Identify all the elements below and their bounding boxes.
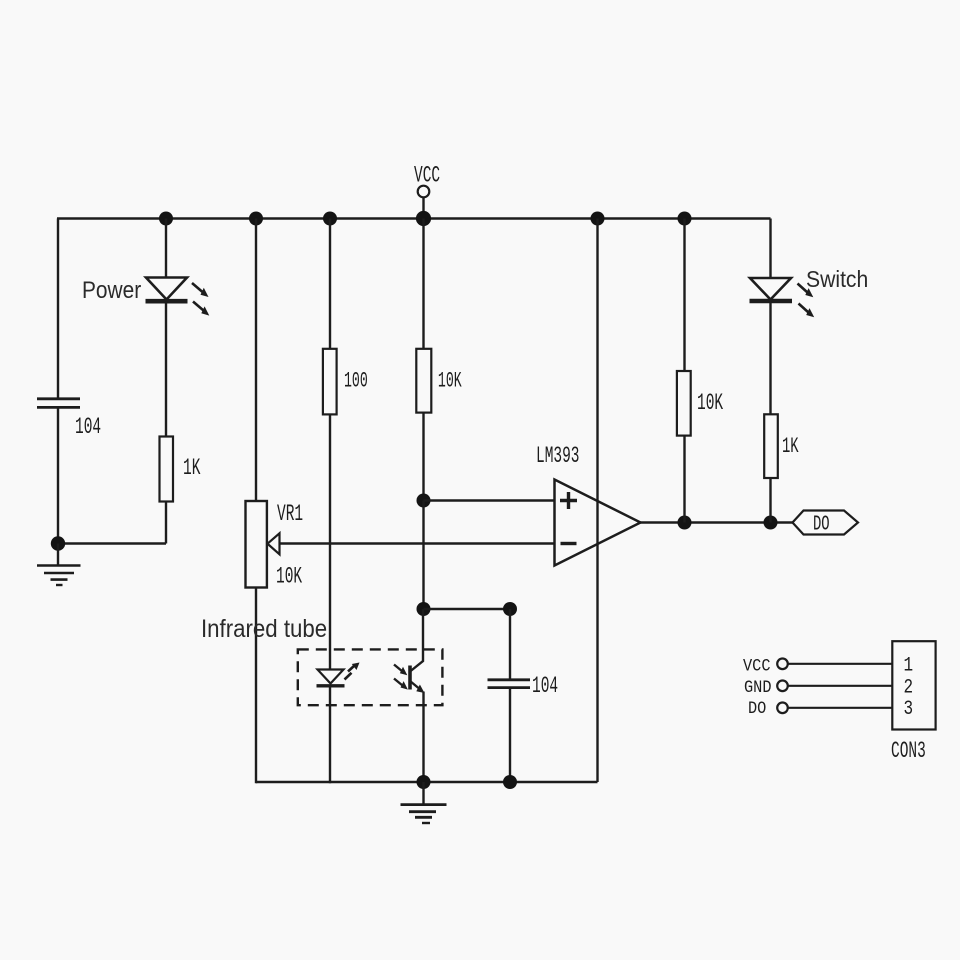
junction dot rail at right riser [591,212,605,226]
wire VCC stem [422,197,424,218]
svg-text:DO: DO [748,699,766,719]
svg-text:VR1: VR1 [277,501,303,527]
wire Switch LED anode stem [769,219,771,279]
wire Power LED anode stem [165,219,167,278]
junction dot rail at 10K-right column [678,212,692,226]
connector CON3 body [892,641,935,729]
resistor R5 1K body [764,414,778,478]
svg-text:DO: DO [813,513,830,537]
phototransistor Q1 emitter with arrow [410,681,422,691]
svg-text:Power: Power [82,277,142,304]
LED D2 emission arrows [798,284,815,318]
wire R2 bottom to IR LED [329,414,331,669]
resistor R2 100 body [323,349,337,415]
LED D1 Power (triangle + cathode bar) [146,278,188,302]
wire top VCC rail [57,217,771,219]
wire 10K-right top stem [683,219,685,372]
junction dot rail at VCC column [416,211,431,226]
wire left column lower (C1 to ground node) [57,407,59,543]
potentiometer VR1 body [246,501,267,588]
junction dot rail at Power column [159,212,173,226]
junction dot plus-input node [417,494,431,508]
resistor R4 10K body [677,371,691,436]
ground symbol left [37,544,81,586]
svg-text:Infrared tube: Infrared tube [201,616,327,643]
svg-text:VCC: VCC [743,656,771,676]
capacitor C2 plates [488,678,531,681]
wire Q1 emitter to bottom rail [422,692,424,784]
wire R5 bottom to output [769,478,771,523]
op-amp U1 LM393 triangle [555,480,641,566]
LED D3 infrared emitter (triangle + bar) [317,670,345,686]
node VCC pin circle [777,659,788,670]
wire C2 bottom to bottom rail [509,688,511,784]
svg-text:LM393: LM393 [536,443,579,469]
wire VR1 bottom to bottom rail [255,588,257,784]
wire Switch LED cathode to R5 [769,301,771,415]
LED D2 Switch (triangle + cathode bar) [750,278,793,301]
LED D3 emission bolt arrow [345,663,360,680]
junction dot bottom rail at C2 column [503,775,517,789]
svg-text:Switch: Switch [806,266,868,292]
junction dot output at 10K-right [678,516,692,530]
node DO pin circle [777,703,788,714]
wire R3 bottom to plus-node [422,413,424,501]
wire plus-node down to mid node [422,501,424,610]
op-amp minus sign [561,542,577,545]
junction dot output at 1K-right [764,516,778,530]
wire GND pin to connector [788,685,892,687]
svg-text:1K: 1K [782,434,799,459]
junction dot left ground node [51,536,65,550]
junction dot C2 top node [503,602,517,616]
op-amp plus sign [560,492,577,509]
wire minus input (wiper to op-amp) [280,542,555,544]
ground symbol bottom [401,782,447,823]
node GND pin circle [777,681,788,692]
wire R4 bottom to output [683,436,685,523]
svg-text:1K: 1K [183,455,201,481]
phototransistor Q1 collector [410,609,423,672]
svg-text:GND: GND [744,678,772,698]
wire right riser (rail to bottom rail, crosses op-amp) [596,219,598,783]
wire op-amp output [641,521,794,523]
wire ground-node horizontal [58,542,166,544]
svg-text:CON3: CON3 [891,738,926,764]
wire left column upper (rail to C1) [57,219,59,400]
svg-text:3: 3 [904,699,914,721]
resistor R3 10K body [416,349,431,413]
phototransistor Q1 base bar [408,666,412,690]
wire IR LED cathode to bottom rail [329,686,331,783]
wire C2 top stem [509,609,511,680]
junction dot rail at VR1 column [249,212,263,226]
capacitor C1 plates [37,397,80,400]
resistor R1 1K body [160,437,174,502]
wire mid node horizontal to C2 [424,608,511,610]
dashed box (photo interrupter) [298,649,443,705]
svg-text:104: 104 [75,414,101,440]
node VCC terminal circle [418,186,430,198]
svg-text:VCC: VCC [414,162,440,188]
wire VR1 top stem [255,219,257,502]
phototransistor light arrows [394,665,408,690]
svg-text:10K: 10K [438,369,462,393]
svg-text:10K: 10K [276,563,302,589]
wire Power LED cathode to R1 [165,301,167,437]
wire R1 bottom to ground-node horizontal [165,502,167,544]
junction dot bottom rail at transistor column [417,775,431,789]
wire 10K-mid top stem [422,219,424,350]
LED D1 emission arrows [192,283,209,316]
DO output flag [793,511,859,535]
VR1 wiper arrow [268,533,280,554]
junction dot rail at 100-ohm column [323,212,337,226]
wire VCC pin to connector [788,663,892,665]
svg-text:104: 104 [532,673,558,699]
svg-text:1: 1 [904,655,914,677]
wire plus input to op-amp [424,499,555,501]
svg-text:100: 100 [344,369,368,393]
wire bottom rail [256,781,598,783]
svg-text:10K: 10K [697,390,723,416]
wire DO pin to connector [788,707,892,709]
wire 100-ohm top stem [329,219,331,350]
junction dot mid node (collector) [417,602,431,616]
svg-text:2: 2 [904,677,914,699]
